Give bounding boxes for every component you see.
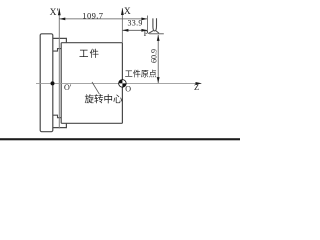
workpiece outline — [61, 43, 122, 124]
X' axis line — [58, 9, 60, 129]
dimension 109.7 left arrowhead — [59, 18, 65, 21]
X axis arrowhead — [121, 8, 124, 15]
dimension 109.7 right arrowhead — [141, 18, 147, 21]
node O' rotation centre dot — [51, 81, 55, 85]
chuck jaw bottom inner step — [53, 115, 61, 118]
tool tip left diagonal to P — [148, 31, 153, 34]
dimension 33.9 line — [122, 29, 147, 31]
svg-text:工件: 工件 — [79, 48, 100, 60]
svg-text:Z: Z — [194, 82, 199, 92]
svg-text:旋转中心: 旋转中心 — [85, 94, 124, 106]
svg-text:P: P — [144, 29, 149, 38]
chuck body — [40, 34, 53, 132]
dimension 33.9 left arrowhead — [122, 29, 128, 32]
X' axis arrowhead — [58, 8, 61, 15]
chuck jaw top — [53, 38, 67, 42]
svg-text:109.7: 109.7 — [82, 11, 103, 21]
svg-text:X′: X′ — [50, 8, 59, 18]
svg-text:O: O — [125, 85, 131, 94]
X axis line — [121, 8, 123, 43]
svg-text:60.9: 60.9 — [149, 49, 158, 63]
Z axis (rotation centre line) — [36, 82, 201, 84]
leader line to rotation centre label — [92, 82, 100, 94]
dimension 109.7 line — [59, 18, 147, 20]
tool tip right diagonal — [156, 31, 159, 34]
node O workpiece origin symbol — [119, 80, 127, 88]
bottom border rule — [0, 138, 240, 140]
dimension 60.9 top arrowhead — [157, 35, 160, 41]
chuck jaw top inner step — [53, 49, 61, 52]
dimension 60.9 line — [157, 35, 159, 83]
tool U shape — [153, 18, 157, 31]
dimension 60.9 bottom arrowhead — [157, 77, 160, 83]
tool tip horizontal extension — [149, 33, 164, 35]
svg-text:33.9: 33.9 — [128, 19, 143, 28]
chuck jaw bottom — [53, 123, 67, 127]
extension line at tool tip P — [146, 16, 148, 33]
dimension 33.9 right arrowhead — [141, 29, 147, 32]
svg-text:O′: O′ — [64, 83, 72, 92]
Z axis arrowhead — [196, 82, 203, 85]
svg-text:工件原点: 工件原点 — [125, 68, 157, 78]
svg-text:X: X — [124, 7, 131, 17]
